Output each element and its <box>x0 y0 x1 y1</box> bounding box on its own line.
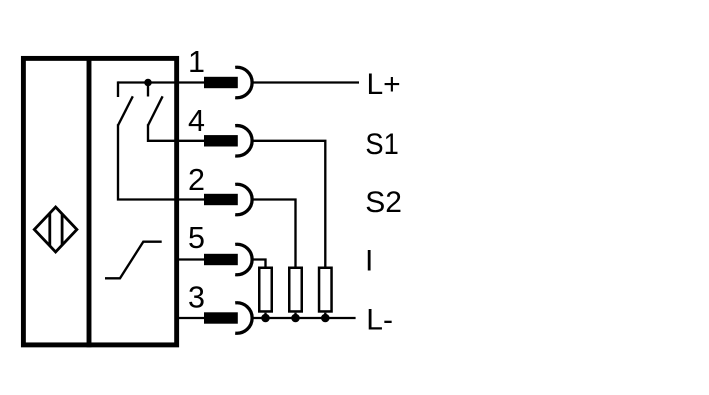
pin 3 socket arc <box>235 303 252 333</box>
svg-text:S2: S2 <box>365 186 402 219</box>
pin 3 contact <box>204 312 238 323</box>
sensor body outline <box>23 58 176 345</box>
pin 5 contact <box>204 254 238 265</box>
pin 1 socket arc <box>235 67 252 97</box>
pin 2 contact <box>204 194 238 205</box>
switch S1 blade <box>148 96 163 125</box>
pin 4 socket arc <box>235 126 252 156</box>
sensing face diamond symbol <box>34 207 77 252</box>
svg-text:4: 4 <box>188 104 205 138</box>
load R2 <box>289 268 302 312</box>
wire switch S2 to pin 2 <box>118 124 204 199</box>
wire pin 5 to load R1 <box>252 260 266 267</box>
svg-text:L+: L+ <box>367 68 401 101</box>
wire pin 2 to load R2 <box>252 200 296 267</box>
wire switch S1 to pin 4 <box>148 124 204 141</box>
pin 5 socket arc <box>235 244 252 274</box>
svg-text:3: 3 <box>188 281 205 315</box>
svg-text:5: 5 <box>188 221 205 255</box>
svg-text:2: 2 <box>188 163 205 197</box>
load R1 <box>259 268 272 312</box>
wire pin 3 L- bus <box>252 317 356 319</box>
load R3 bottom stub <box>324 313 326 318</box>
wire box to pin 3 <box>176 317 204 319</box>
svg-text:S1: S1 <box>365 128 398 161</box>
wire L+ internal to pin 1 <box>118 81 204 83</box>
sensor face divider <box>87 56 92 347</box>
svg-text:1: 1 <box>188 45 205 79</box>
analog ramp symbol <box>105 242 162 279</box>
wire pin 4 to load R3 <box>252 141 325 267</box>
load R3 <box>319 268 332 312</box>
pin 1 contact <box>204 77 238 88</box>
switch S2 blade <box>118 96 133 125</box>
svg-text:L-: L- <box>366 303 393 336</box>
load R1 bottom stub <box>264 313 266 318</box>
junction dot R1/L- <box>261 314 270 323</box>
svg-text:I: I <box>365 244 373 277</box>
wire box to pin 5 <box>176 258 204 260</box>
switch S1 upper stub <box>147 84 149 97</box>
wire pin 1 to L+ <box>252 81 359 83</box>
junction dot R3/L- <box>321 314 330 323</box>
junction dot R2/L- <box>291 314 300 323</box>
switch S2 upper stub <box>117 81 119 97</box>
pin 2 socket arc <box>235 184 252 214</box>
junction dot on L+ wire <box>144 79 152 87</box>
pin 4 contact <box>204 135 238 146</box>
load R2 bottom stub <box>294 313 296 318</box>
